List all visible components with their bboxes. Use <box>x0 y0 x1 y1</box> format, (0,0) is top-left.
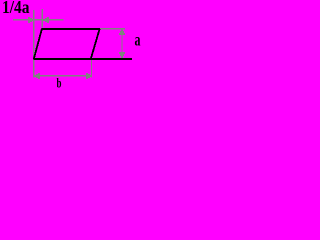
arrow a down <box>119 52 125 58</box>
extension line a (from top-right corner) <box>100 28 125 30</box>
svg-text:1/4a: 1/4a <box>2 0 30 17</box>
arrow b left <box>34 73 40 79</box>
background <box>0 0 151 95</box>
extension line left (bottom-left corner, runs to b dimension) <box>33 10 35 77</box>
dimension line a (vertical) <box>121 29 123 59</box>
dimension line 1/4a <box>13 19 64 21</box>
extension line b right (below bottom-right corner) <box>91 60 93 77</box>
parallelogram bottom edge (extended right for a dimension) <box>34 58 132 60</box>
parallelogram top edge <box>42 28 101 30</box>
svg-text:b: b <box>57 77 62 92</box>
extension line right (top-left corner) <box>41 9 43 28</box>
arrow a up <box>119 29 125 35</box>
dimension line b <box>34 75 92 77</box>
parallelogram left edge <box>34 29 42 59</box>
svg-text:a: a <box>135 30 141 50</box>
parallelogram right edge <box>91 29 100 59</box>
arrow 1/4a right (tip left at right tick) <box>42 17 49 23</box>
arrow b right <box>86 73 92 79</box>
arrow 1/4a left (tip right at left tick) <box>28 17 34 23</box>
